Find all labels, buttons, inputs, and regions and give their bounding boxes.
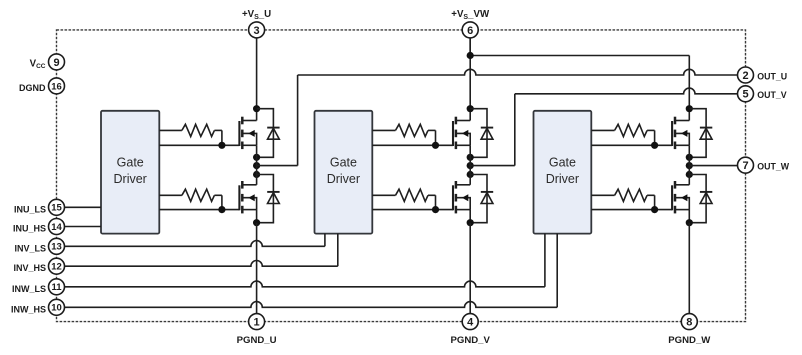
label INU_HS bbox=[13, 224, 46, 234]
node U midpoint (output tap) bbox=[253, 162, 260, 169]
svg-text:7: 7 bbox=[742, 160, 748, 172]
label VCC bbox=[30, 58, 46, 70]
svg-text:6: 6 bbox=[467, 25, 473, 37]
node V high-side gate junction bbox=[432, 142, 439, 149]
node V low-side gate junction bbox=[432, 206, 439, 213]
pin 2 (OUT_U) bbox=[738, 67, 754, 83]
wire INV_LS (pin 13 to driver 2) bbox=[64, 234, 325, 247]
svg-text:OUT_V: OUT_V bbox=[757, 90, 786, 100]
wire INU_HS (pin 14 to driver 1) bbox=[64, 226, 101, 228]
wire INW_HS (pin 10 to driver 3) bbox=[64, 234, 557, 308]
node V midpoint (source/diode junction) bbox=[467, 154, 474, 161]
svg-text:13: 13 bbox=[51, 242, 62, 253]
wire V low-side gate drive (from driver) bbox=[372, 195, 453, 209]
transistor Q1 (U high-side n-mosfet) bbox=[239, 117, 256, 149]
svg-text:DGND: DGND bbox=[19, 83, 46, 93]
pin 15 (INU_LS) bbox=[49, 199, 65, 215]
wire OUT_V from V midpoint to pin 5 bbox=[470, 88, 737, 166]
node V midpoint (low-side drain) bbox=[467, 171, 474, 178]
pin 14 (INU_HS) bbox=[49, 219, 65, 235]
resistor U high-side gate bbox=[182, 124, 215, 136]
svg-text:INV_LS: INV_LS bbox=[14, 243, 46, 253]
resistor V high-side gate bbox=[396, 124, 429, 136]
svg-text:14: 14 bbox=[51, 222, 62, 233]
svg-text:12: 12 bbox=[51, 262, 62, 273]
svg-text:+VS_U: +VS_U bbox=[242, 9, 271, 21]
label INV_LS bbox=[14, 243, 46, 253]
wire U high-side gate drive (from driver) bbox=[159, 130, 239, 145]
pin 5 (OUT_V) bbox=[738, 86, 754, 102]
pin 8 (PGND_W) bbox=[681, 314, 697, 330]
svg-text:Driver: Driver bbox=[114, 172, 147, 186]
svg-text:VCC: VCC bbox=[30, 58, 46, 70]
wire OUT_W from W midpoint to pin 7 bbox=[689, 165, 737, 167]
node W midpoint (low-side drain) bbox=[686, 171, 693, 178]
node U midpoint (source/diode junction) bbox=[253, 154, 260, 161]
label INV_HS bbox=[13, 263, 46, 273]
svg-text:5: 5 bbox=[742, 89, 748, 101]
body diode W low-side bbox=[689, 175, 712, 223]
label +VS_VW bbox=[451, 9, 490, 21]
node U low-side source bbox=[253, 219, 260, 226]
pin 16 (DGND) bbox=[49, 78, 65, 94]
wire U low-side source to PGND_U bbox=[256, 223, 258, 314]
pin 1 (PGND_U) bbox=[249, 314, 265, 330]
gate driver 2 (phase V) bbox=[315, 111, 373, 234]
wire W low-side gate drive (from driver) bbox=[591, 195, 672, 209]
transistor Q6 (W low-side n-mosfet) bbox=[672, 181, 689, 213]
svg-text:11: 11 bbox=[51, 282, 62, 293]
label +VS_U bbox=[242, 9, 271, 21]
wire INV_HS (pin 12 to driver 2) bbox=[64, 234, 337, 267]
node W midpoint (source/diode junction) bbox=[686, 154, 693, 161]
wire V low-side source to PGND_V bbox=[469, 223, 471, 314]
wire U low-side source connector bbox=[256, 210, 258, 223]
node U low-side gate junction bbox=[218, 206, 225, 213]
svg-text:PGND_U: PGND_U bbox=[237, 335, 277, 346]
node W high-side gate junction bbox=[651, 142, 658, 149]
label PGND_V bbox=[450, 335, 490, 346]
label INW_HS bbox=[11, 304, 46, 314]
wire W midpoint column bbox=[688, 145, 690, 185]
label INU_LS bbox=[14, 204, 46, 214]
node W low-side source bbox=[686, 219, 693, 226]
pin 6 (+VS_VW) bbox=[462, 22, 478, 38]
gate driver 3 (phase W) bbox=[534, 111, 592, 234]
transistor Q5 (W high-side n-mosfet) bbox=[672, 117, 689, 149]
svg-text:16: 16 bbox=[51, 81, 62, 92]
body diode V low-side bbox=[470, 175, 493, 223]
transistor Q4 (V low-side n-mosfet) bbox=[453, 181, 470, 213]
svg-text:+VS_VW: +VS_VW bbox=[451, 9, 490, 21]
svg-text:Gate: Gate bbox=[330, 156, 357, 170]
wire V high-side gate drive (from driver) bbox=[372, 130, 453, 145]
wire U midpoint column bbox=[256, 145, 258, 185]
pin 3 (+VS_U) bbox=[249, 22, 265, 38]
svg-text:Gate: Gate bbox=[549, 156, 576, 170]
svg-text:INW_LS: INW_LS bbox=[12, 284, 46, 294]
body diode U high-side bbox=[257, 109, 280, 158]
IC boundary (dashed outline) bbox=[57, 30, 746, 322]
label OUT_V bbox=[757, 90, 786, 100]
pin 11 (INW_LS) bbox=[49, 279, 65, 295]
svg-text:INU_HS: INU_HS bbox=[13, 224, 46, 234]
wire W low-side source connector bbox=[688, 210, 690, 223]
node W midpoint (output tap) bbox=[686, 162, 693, 169]
svg-text:8: 8 bbox=[686, 317, 692, 329]
wire +VS feed to W high-side drain bbox=[688, 56, 690, 121]
svg-text:OUT_U: OUT_U bbox=[757, 71, 787, 81]
wire OUT_U from U midpoint to pin 2 bbox=[257, 69, 738, 165]
resistor V low-side gate bbox=[396, 189, 429, 201]
label DGND bbox=[19, 83, 46, 93]
node V low-side source bbox=[467, 219, 474, 226]
svg-text:Gate: Gate bbox=[117, 156, 144, 170]
svg-text:1: 1 bbox=[254, 317, 260, 329]
resistor W low-side gate bbox=[615, 189, 648, 201]
wire INU_LS (pin 15 to driver 1) bbox=[64, 206, 101, 208]
svg-text:INU_LS: INU_LS bbox=[14, 204, 46, 214]
transistor Q3 (V high-side n-mosfet) bbox=[453, 117, 470, 149]
gate driver 1 (phase U) bbox=[101, 111, 159, 234]
wire U low-side gate drive (from driver) bbox=[159, 195, 239, 209]
node U midpoint (low-side drain) bbox=[253, 171, 260, 178]
svg-text:OUT_W: OUT_W bbox=[757, 162, 789, 172]
svg-text:PGND_W: PGND_W bbox=[668, 335, 711, 346]
node V high-side drain bbox=[467, 105, 474, 112]
svg-text:15: 15 bbox=[51, 203, 62, 214]
label INW_LS bbox=[12, 284, 46, 294]
node W high-side drain bbox=[686, 105, 693, 112]
body diode U low-side bbox=[257, 175, 280, 223]
svg-text:Driver: Driver bbox=[546, 172, 579, 186]
label PGND_U bbox=[237, 335, 277, 346]
wire V low-side source connector bbox=[469, 210, 471, 223]
wire W high-side gate drive (from driver) bbox=[591, 130, 672, 145]
svg-text:2: 2 bbox=[742, 70, 748, 82]
pin 9 (VCC) bbox=[49, 54, 65, 70]
node U high-side drain bbox=[253, 105, 260, 112]
pin 10 (INW_HS) bbox=[49, 299, 65, 315]
node +VS_VW branch bbox=[467, 52, 474, 59]
pin 4 (PGND_V) bbox=[462, 314, 478, 330]
label PGND_W bbox=[668, 335, 711, 346]
body diode V high-side bbox=[470, 109, 493, 158]
pin 12 (INV_HS) bbox=[49, 258, 65, 274]
pin 13 (INV_LS) bbox=[49, 238, 65, 254]
label OUT_U bbox=[757, 71, 787, 81]
wire +VS feed to V high-side drain bbox=[469, 38, 471, 121]
node V midpoint (output tap) bbox=[467, 162, 474, 169]
wire W low-side source to PGND_W bbox=[688, 223, 690, 314]
wire V midpoint column bbox=[469, 145, 471, 185]
node U high-side gate junction bbox=[218, 142, 225, 149]
transistor Q2 (U low-side n-mosfet) bbox=[239, 181, 256, 213]
svg-text:Driver: Driver bbox=[327, 172, 360, 186]
body diode W high-side bbox=[689, 109, 712, 158]
svg-text:INV_HS: INV_HS bbox=[13, 263, 46, 273]
svg-text:10: 10 bbox=[51, 303, 62, 314]
wire INW_LS (pin 11 to driver 3) bbox=[64, 234, 545, 287]
node W low-side gate junction bbox=[651, 206, 658, 213]
svg-text:PGND_V: PGND_V bbox=[450, 335, 490, 346]
svg-text:INW_HS: INW_HS bbox=[11, 304, 46, 314]
svg-text:9: 9 bbox=[53, 57, 59, 69]
svg-text:3: 3 bbox=[254, 25, 260, 37]
wire +VS feed to U high-side drain bbox=[256, 38, 258, 121]
wire +VS_VW rail from pin 6 with branch to phase W bbox=[470, 38, 689, 56]
resistor U low-side gate bbox=[182, 189, 215, 201]
pin 7 (OUT_W) bbox=[738, 157, 754, 173]
svg-text:4: 4 bbox=[467, 317, 474, 329]
resistor W high-side gate bbox=[615, 124, 648, 136]
label OUT_W bbox=[757, 162, 789, 172]
